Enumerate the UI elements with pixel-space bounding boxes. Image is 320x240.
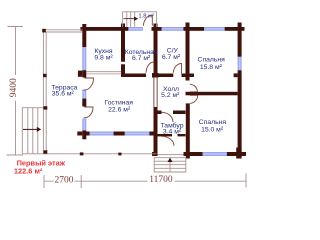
wall hall/tambour divider left: [158, 111, 162, 115]
wall left upper: [82, 24, 86, 47]
svg-text:9400: 9400: [9, 78, 19, 97]
window livingroom left upper: [82, 90, 86, 99]
wall V1 boiler/bath top stub: [154, 24, 158, 78]
svg-text:22.6 м²: 22.6 м²: [108, 106, 131, 113]
wall bottom house left part: [152, 152, 158, 156]
stub right wall inner: [234, 73, 238, 77]
entrance steps treads: [154, 161, 186, 168]
rail corner post dot: [42, 29, 121, 156]
wall right upper: [238, 23, 242, 57]
junction V1 x H1: [152, 73, 159, 78]
corner bottom right cross: [236, 148, 241, 159]
wall bottom house right: [227, 152, 246, 156]
window bedroom1 right: [238, 57, 242, 71]
door vestibule leaf+arc: [144, 15, 153, 26]
terrace stairs treads: [22, 108, 38, 154]
stairs bottom right dot: [44, 150, 48, 153]
wall hall/tambour divider right: [173, 111, 186, 115]
door arcs: [84, 15, 198, 146]
door bathroom leaf+arc: [173, 63, 181, 73]
svg-text:35.6 м²: 35.6 м²: [52, 91, 75, 98]
vestibule stair treads: [127, 12, 135, 27]
door hall-tambour arc: [162, 112, 174, 122]
door boiler leaf+arc: [146, 62, 154, 74]
door hall-bedroom2 arc: [190, 95, 198, 103]
vestibule outline: [123, 12, 157, 27]
door terrace-kitchen leaf+arc: [84, 78, 94, 90]
wall V2 lower jamb: [186, 103, 190, 158]
window kitchen left: [82, 47, 86, 70]
wall top segment 4: [184, 27, 205, 31]
stairs top right dot: [44, 106, 48, 109]
wall V2 top: [186, 23, 190, 81]
wall V2 mid between double doors: [186, 92, 190, 96]
label 9400 bg: [9, 75, 19, 101]
wall top segment left: [82, 27, 128, 31]
wall top segment 3: [152, 27, 162, 31]
door hall-bedroom1 arc: [190, 84, 198, 92]
wall tambour bottom inner left: [156, 134, 173, 136]
dimension 9400 line: [7, 27, 247, 189]
svg-text:15.0 м²: 15.0 м²: [201, 126, 224, 133]
terrace stairs top edge: [22, 107, 46, 109]
thin divider kitchen/livingroom: [86, 72, 157, 107]
svg-text:6.7 м²: 6.7 м²: [162, 54, 181, 61]
window livingroom left lower: [82, 119, 86, 131]
window bottom bedroom2: [203, 152, 227, 156]
svg-text:1.8 м²: 1.8 м²: [138, 13, 154, 19]
terrace rail left double line: [43, 30, 46, 154]
window center highlights: [84, 28, 241, 155]
deck line dot 2: [118, 153, 121, 156]
terrace rail top double line: [22, 12, 186, 172]
wall V1 mid lower (below hall door): [154, 107, 158, 152]
door tambour exit arc: [162, 136, 175, 146]
label 11700 bg: [148, 175, 175, 185]
svg-text:3.4 м²: 3.4 м²: [163, 129, 182, 136]
wall V0 kitchen/boiler upper: [121, 24, 125, 62]
window bathroom top: [162, 27, 184, 31]
svg-text:11700: 11700: [149, 175, 173, 185]
window vestibule top wall: [128, 27, 142, 31]
dimension bottom line: [44, 174, 246, 189]
label 2700 bg: [54, 176, 75, 185]
svg-text:122.6 м²: 122.6 м²: [14, 167, 43, 176]
wall top segment 5: [225, 27, 245, 31]
wall left bottom cross: [82, 131, 86, 140]
stairs arrow terrace: [23, 17, 173, 163]
door terrace-livingroom leaf+arc: [84, 107, 93, 118]
svg-text:9.8 м²: 9.8 м²: [94, 55, 113, 62]
entrance steps center line: [169, 158, 171, 172]
svg-text:6.7 м²: 6.7 м²: [132, 55, 151, 62]
terrace deck bottom line: [22, 153, 156, 155]
wall H1 right part: [182, 74, 186, 78]
entrance steps arrow up: [168, 158, 173, 162]
rail mid post dot: [43, 74, 47, 77]
wall left mid: [82, 70, 86, 77]
deck line dot 1: [80, 152, 84, 155]
svg-text:2700: 2700: [55, 176, 74, 186]
wall H2 bedroom divider: [190, 92, 238, 96]
svg-text:5.2 м²: 5.2 м²: [161, 92, 180, 99]
entrance steps outline: [154, 158, 186, 172]
window bedroom1 top: [204, 27, 225, 31]
stub left at kitchen divider: [78, 71, 82, 77]
svg-text:Спальня: Спальня: [198, 57, 226, 64]
vestibule arrow: [124, 17, 135, 20]
stub right of V2: [190, 74, 195, 78]
wall H1 between doors: [158, 74, 174, 78]
wall V0 lower: [121, 64, 125, 77]
wall bottom livingroom + windows: [84, 132, 90, 136]
svg-text:Спальня: Спальня: [199, 119, 227, 126]
wall H1 boiler bottom: [125, 74, 146, 78]
wall bottom house mid: [184, 152, 203, 156]
wall tambour bottom inner right: [178, 134, 186, 136]
opening livingroom-hall thin jambs: [154, 78, 157, 108]
wall right lower: [238, 70, 242, 158]
wall left between doors: [82, 99, 86, 107]
svg-text:15.8 м²: 15.8 м²: [200, 64, 223, 71]
threshold line tambour exit: [158, 153, 184, 156]
